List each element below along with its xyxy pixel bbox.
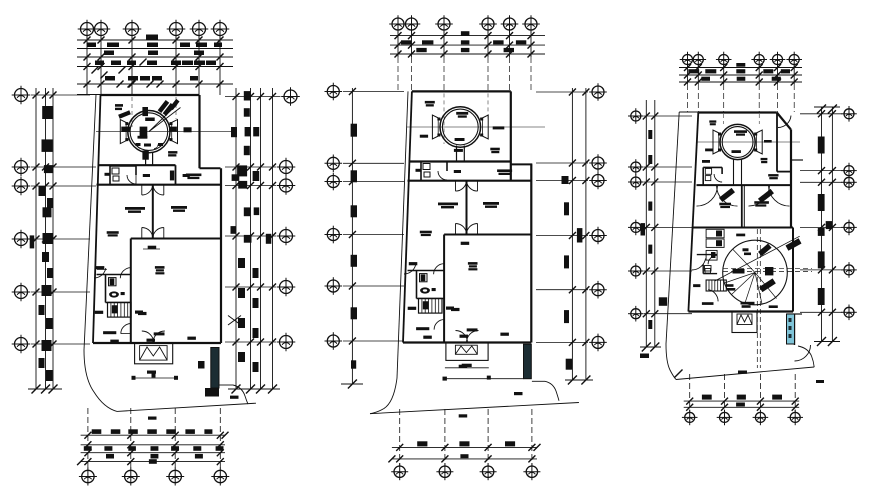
plan1 left axis line xyxy=(31,185,96,187)
plan2 area texts xyxy=(425,101,435,104)
plan2 top grid bubble 3 xyxy=(435,15,453,33)
plan2 wall y161 xyxy=(409,160,511,162)
plan3 driveway curb bottom-left xyxy=(666,344,676,380)
plan2 top exterior wall xyxy=(412,90,511,92)
plan2 left grid bubble 3 xyxy=(325,173,343,191)
plan2 left axis line xyxy=(343,162,404,164)
plan3 4.00 label right of stair xyxy=(726,284,733,287)
plan2 left door wing of circle xyxy=(432,115,440,139)
plan1 left axis line xyxy=(31,291,90,293)
plan2 lot boundary left slanted xyxy=(397,91,408,378)
plan1 bottom exterior wall xyxy=(93,342,221,344)
plan1 room label OFICINA No2 xyxy=(171,206,187,209)
plan1 4.00 dim labels with arrows xyxy=(148,246,157,249)
plan3 right axis line xyxy=(800,269,842,271)
plan3 right axis line xyxy=(800,113,842,115)
plan1 small text by sink xyxy=(121,292,125,295)
plan2 right axis line xyxy=(536,180,588,182)
plan3 grid centerlines xyxy=(723,114,725,124)
plan2 bottom dim droppers xyxy=(399,409,401,466)
plan2 right axis line xyxy=(536,162,588,164)
plan2 staircase xyxy=(419,298,443,313)
plan2 mid bathroom walls xyxy=(408,270,445,272)
plan1 wall y238 xyxy=(131,238,221,240)
plan3 right dim text blocks xyxy=(818,137,825,154)
plan1 partition x175 service area xyxy=(175,165,177,185)
plan1 label SECRETARIA xyxy=(103,331,116,334)
plan3 door arc top-right terrace xyxy=(778,116,791,128)
plan3 right grid bubble 2 xyxy=(841,163,857,179)
plan3 left dim text blocks xyxy=(648,130,652,139)
plan1 left grid bubble 4 xyxy=(12,230,31,249)
plan1 top grid bubble 3 xyxy=(123,20,142,39)
plan2 fence line below porch xyxy=(445,378,524,380)
plan3 AREA text in circle xyxy=(734,130,747,133)
plan3 interior wall x777 terrace strip xyxy=(776,113,778,172)
plan2 4.00 label left entry xyxy=(416,169,422,172)
plan3 wall y227 xyxy=(692,227,793,229)
plan2 double door on wall y234 xyxy=(456,224,467,235)
plan1 right door wing of circle xyxy=(170,120,178,144)
plan3 left axis line xyxy=(644,313,692,315)
plan1 top grid bubble 5 xyxy=(190,20,209,39)
plan3 rotunda dashed centerline pair vertical xyxy=(756,229,758,368)
plan2 4.00 label right of circle xyxy=(493,126,505,129)
plan3 vestibule below circle xyxy=(733,159,735,185)
plan2 right dimension lines xyxy=(571,88,573,380)
plan3 left axis line xyxy=(644,115,692,117)
plan1 bottom grid bubble 1 xyxy=(79,468,97,486)
plan3 small desks left rooms xyxy=(706,229,724,238)
plan3 gate swing arc bottom-right xyxy=(795,345,811,361)
plan2 right axis line xyxy=(536,91,588,93)
plan2 top grid bubble 2 xyxy=(403,15,421,33)
plan1 ramp dark hatched rectangle xyxy=(211,348,219,389)
plan3 right door wing of circle xyxy=(754,130,762,154)
plan3 bottom grid bubble 1 xyxy=(682,410,698,426)
plan3 4.00 label stair xyxy=(693,284,700,287)
plan3 4.00 label circle bottom xyxy=(732,150,741,153)
plan1 left door wing of circle xyxy=(120,120,128,144)
plan3 left grid bubble 3 xyxy=(628,174,644,190)
plan1 dark block left of partition xyxy=(170,171,174,181)
plan1 AREA DE SERVICIO text xyxy=(186,174,202,177)
plan1 driveway curb curve bottom-left xyxy=(84,350,117,411)
plan3 top grid bubble 2 xyxy=(691,52,707,68)
plan3 office labels xyxy=(719,203,731,206)
plan3 solid label left of center xyxy=(733,269,745,274)
plan3 left grid bubble 4 xyxy=(628,220,644,236)
plan1 left exterior wall (slanted) xyxy=(93,95,101,343)
plan2 bottom grid bubble 3 xyxy=(480,463,497,480)
plan3 staircase xyxy=(706,280,726,291)
plan1 grid centerline A xyxy=(131,97,133,127)
plan3 wall y314 right xyxy=(787,313,803,315)
plan3 right grid bubble 6 xyxy=(841,305,857,321)
plan2 right exterior wall lower xyxy=(530,164,532,342)
plan2 label below circle xyxy=(454,149,463,152)
plan2 left axis line xyxy=(343,340,404,342)
plan2 wall y164 step right xyxy=(511,163,533,165)
plan1 left axis line xyxy=(31,94,90,96)
plan3 right axis line xyxy=(800,226,842,228)
plan2 right grid bubble 6 xyxy=(589,334,607,352)
plan2 street edge line xyxy=(370,403,579,414)
plan2 stair label block xyxy=(446,307,454,310)
plan2 right dim block low xyxy=(566,359,573,370)
plan3 porch M steps xyxy=(737,315,752,325)
plan3 right grid bubble 3 xyxy=(841,175,857,191)
plan2 left axis line xyxy=(343,285,404,287)
plan2 left grid bubble 1 xyxy=(325,83,343,101)
plan1 bottom grid bubble 4 xyxy=(211,468,229,486)
plan2 vestibule below circle xyxy=(456,146,458,162)
plan1 grid centerline B xyxy=(175,97,177,119)
plan3 4.00 label left of circle xyxy=(705,149,713,152)
plan2 right grid bubble 3 xyxy=(589,172,607,190)
plan1 left grid bubble 3 xyxy=(12,177,31,196)
plan1 right axis line xyxy=(225,185,276,187)
plan1 stair arrow block xyxy=(112,306,117,313)
plan3 bottom grid bubble 4 xyxy=(787,410,803,426)
plan2 left dim block low xyxy=(351,360,356,368)
plan1 door arc secretaria xyxy=(121,324,131,334)
plan1 top exterior wall xyxy=(101,94,200,96)
plan2 driveway curb bottom-left xyxy=(370,378,397,414)
plan1 left grid bubble 6 xyxy=(12,335,31,354)
plan3 bottom dimension lines xyxy=(684,400,800,402)
plan1 dimension arrow line below porch xyxy=(133,377,176,379)
plan2 4.00 label in circle bottom xyxy=(455,138,465,141)
plan1 small marks bottom inside circle xyxy=(136,143,141,146)
plan3 right grid bubble 5 xyxy=(841,262,857,278)
plan3 top grid bubble 6 xyxy=(786,52,802,68)
plan2 right door wing of circle xyxy=(480,115,488,139)
plan1 room label SALA DE ESPERA xyxy=(155,266,165,269)
plan2 label RECEPCION xyxy=(467,328,478,331)
plan1 right grid bubble 6 xyxy=(277,333,296,352)
plan2 left axis line xyxy=(343,234,404,236)
plan3 left grid bubble 5 xyxy=(628,263,644,279)
plan3 top grid bubble 4 xyxy=(751,52,767,68)
plan3 4.00 label terrace strip xyxy=(764,140,772,143)
plan3 AREA DE SERVICIO text xyxy=(768,174,778,176)
plan3 wc fixture upper xyxy=(705,169,711,175)
plan3 wall y185 xyxy=(697,184,792,186)
plan1 left grid bubble 5 xyxy=(12,283,31,302)
plan1 right grid bubble 2 xyxy=(277,158,296,177)
plan1 AREA VERDE text top-left line1 xyxy=(115,104,123,107)
plan2 double door on corridor wall xyxy=(456,180,467,191)
plan3 door arc upper bath xyxy=(714,174,722,182)
plan2 AREA ESTAR text in circle xyxy=(456,112,468,115)
plan1 right grid bubble 4 xyxy=(277,227,296,246)
plan3 small labels in rotunda top xyxy=(743,248,749,251)
plan3 ramp light blue rectangle xyxy=(787,314,795,344)
plan3 left grid bubble 6 xyxy=(628,306,644,322)
plan1 mid bathroom walls xyxy=(97,274,131,276)
plan1 left dim ticks and end cross xyxy=(33,92,40,99)
plan2 room label SALA DE ESPERA xyxy=(468,262,478,265)
plan1 left axis line xyxy=(31,343,90,345)
plan1 left dim text blocks xyxy=(42,106,53,119)
plan3 sink fixture upper xyxy=(705,176,711,181)
plan1 4.00 label below porch xyxy=(147,371,156,374)
plan1 top grid stems xyxy=(86,36,88,95)
plan1 4.00 dim label corridor xyxy=(143,174,150,177)
plan3 left dimension lines xyxy=(645,100,647,347)
plan3 circle axis line xyxy=(696,141,800,143)
plan3 door arc mid bath xyxy=(708,255,717,264)
plan1 right exterior wall upper xyxy=(198,95,200,168)
plan1 X marker right side xyxy=(228,316,241,326)
plan1 room label OFICINA No1 xyxy=(125,207,145,210)
plan1 right grid bubble 5 xyxy=(277,278,296,297)
plan1 top dim text blocks xyxy=(146,35,158,40)
plan2 bathroom upper-left xyxy=(420,162,422,181)
plan1 black block right of porch xyxy=(198,361,205,369)
plan3 lot boundary left slanted xyxy=(666,112,679,344)
plan2 bottom grid bubble 2 xyxy=(436,463,453,480)
plan3 rotated desk bars offices xyxy=(719,188,735,202)
plan2 left dim text blocks xyxy=(351,124,357,137)
plan2 room label OFICINA No1 xyxy=(438,203,458,206)
plan2 left grid bubble 4 xyxy=(325,226,343,244)
plan1 rotated annotation bars top-right of circle xyxy=(158,100,170,113)
plan2 wall y234 xyxy=(444,234,531,236)
plan3 right axis line xyxy=(800,170,842,172)
plan3 upper bathroom walls xyxy=(702,167,704,185)
plan2 top grid stems xyxy=(397,30,399,57)
plan2 dimension arrow below porch xyxy=(445,367,489,369)
plan3 long diagonal chord with bar xyxy=(715,236,800,281)
plan1 street edge line xyxy=(117,403,256,411)
plan2 ramp dark rectangle xyxy=(524,344,532,379)
plan3 left grid bubble 1 xyxy=(628,108,644,124)
plan1 circle axis line xyxy=(96,131,234,133)
plan2 room label OFICINA No2 xyxy=(483,202,499,205)
plan1 rotated annotation bar top-left of circle xyxy=(118,110,131,118)
plan1 top grid bubble 2 xyxy=(92,20,111,39)
plan3 top-right slanted wall xyxy=(777,113,791,130)
plan1 door arc bathroom upper xyxy=(127,175,136,184)
plan1 AREA VERDE text lower-right line1 xyxy=(168,151,177,154)
plan1 bathroom upper-left walls xyxy=(109,166,111,184)
plan1 pillar block top of circle xyxy=(142,107,148,116)
plan3 bottom dim text blocks xyxy=(702,395,712,400)
plan3 top grid stems xyxy=(687,65,689,84)
plan3 spiral ramp outer circle xyxy=(723,240,788,305)
plan1 text block right of circle xyxy=(169,127,177,132)
plan2 bottom dimension lines xyxy=(392,446,537,448)
plan3 wall y171 strip bottom xyxy=(777,171,791,173)
plan3 mid bathroom xyxy=(697,254,717,256)
plan2 left dimension line xyxy=(351,88,353,384)
plan1 right axis line xyxy=(225,166,276,168)
plan1 circular hall double ring xyxy=(128,111,170,153)
plan1 corridor wall y184 xyxy=(97,184,222,186)
plan2 top grid bubble 4 xyxy=(479,15,497,33)
plan1 top dim ticks xyxy=(84,37,91,44)
plan2 top grid bubble 1 xyxy=(389,15,407,33)
plan1 right dim text blocks xyxy=(244,91,251,100)
plan2 top dim text blocks xyxy=(461,31,470,35)
plan1 bottom grid bubble 2 xyxy=(122,468,140,486)
plan2 door arc mid bath xyxy=(434,264,445,275)
plan1 right axis line xyxy=(225,96,281,98)
plan2 bottom exterior wall xyxy=(403,341,531,343)
plan3 tick street-lot crossing xyxy=(675,370,683,378)
plan3 left exterior wall slanted xyxy=(688,113,698,312)
plan2 fence right of ramp xyxy=(532,380,545,382)
plan2 right grid bubble 2 xyxy=(589,154,607,172)
plan1 left axis line xyxy=(31,238,90,240)
plan3 USO VEREDA text xyxy=(761,158,768,160)
plan3 4.00 labels street xyxy=(738,371,747,374)
plan1 top grid bubble 4 xyxy=(167,20,186,39)
plan1 left grid bubble 2 xyxy=(12,158,31,177)
plan3 right axis line xyxy=(800,311,842,313)
plan2 stair arrow block xyxy=(423,302,428,309)
plan2 corridor wall y180 xyxy=(408,180,532,182)
plan1 fence line at top-left of lot xyxy=(77,94,101,96)
plan2 right dim blocks xyxy=(562,176,569,184)
plan2 grid centerline A xyxy=(443,93,445,144)
plan3 right exterior wall upper xyxy=(790,129,792,227)
plan2 circular hall double ring xyxy=(440,107,481,148)
plan3 left axis line xyxy=(644,226,692,228)
plan1 bottom dimension lines xyxy=(81,434,225,436)
plan3 top grid bubble 5 xyxy=(770,52,786,68)
plan3 door arc below stair xyxy=(708,290,718,302)
plan3 left axis line xyxy=(644,181,692,183)
plan1 wc fixture mid (dark) xyxy=(110,278,115,285)
plan1 left dimension lines xyxy=(35,88,37,389)
plan2 left axis line xyxy=(343,181,404,183)
plan1 4.00 dim label left entry xyxy=(105,173,111,176)
plan1 double door on corridor wall xyxy=(142,184,153,195)
plan2 grid centerline B xyxy=(487,93,489,119)
plan2 porch M steps xyxy=(455,346,477,354)
plan3 rotated annotation bars in rotunda xyxy=(758,244,771,257)
plan3 fence line top-left xyxy=(679,111,698,113)
plan2 center partition wall xyxy=(466,180,468,234)
plan3 right fence wall by ramp xyxy=(794,314,796,345)
plan3 top exterior wall xyxy=(698,111,777,113)
plan3 large door arc right office xyxy=(749,185,770,206)
plan1 vestibule below circle xyxy=(145,153,147,166)
plan1 wall y168 right xyxy=(200,167,221,169)
plan2 door arc bathroom upper xyxy=(438,171,447,180)
plan1 bottom dim droppers xyxy=(87,408,89,470)
plan1 circle interior L-shaped counter xyxy=(140,127,148,139)
plan1 sink fixture xyxy=(113,176,119,181)
plan1 pointer lines from circle center xyxy=(149,105,181,132)
plan1 porch inner steps with M pattern xyxy=(140,346,168,361)
plan2 porch outline xyxy=(446,343,488,361)
plan1 right grid bubble 1 xyxy=(281,87,300,106)
plan3 bottom grid bubble 3 xyxy=(753,410,769,426)
plan3 bottom dim droppers xyxy=(689,374,691,413)
plan1 door arc mid bath xyxy=(120,268,131,279)
plan1 right axis line xyxy=(225,341,276,343)
plan3 circular hall double ring xyxy=(720,124,755,159)
plan3 top dim text blocks xyxy=(736,63,745,67)
plan3 4.00 label left xyxy=(702,160,710,163)
plan2 right grid bubble 5 xyxy=(589,281,607,299)
plan1 top grid bubble 6 xyxy=(211,20,230,39)
plan2 left grid bubble 5 xyxy=(325,277,343,295)
plan2 label SECRETARIA xyxy=(416,327,429,330)
plan3 right dimension lines xyxy=(821,107,823,342)
plan1 sink oval mid xyxy=(109,291,119,297)
plan1 right axis line xyxy=(225,235,276,237)
plan3 labels bottom rooms xyxy=(702,302,714,305)
plan2 right grid bubble 4 xyxy=(589,227,607,245)
plan2 right axis line xyxy=(536,235,588,237)
plan1 pillar block bottom of circle xyxy=(142,151,148,160)
plan3 curb bottom-right xyxy=(798,346,814,367)
plan3 solid block right of center xyxy=(765,267,773,275)
plan1 center partition wall xyxy=(152,184,154,239)
plan1 wall y165 xyxy=(98,164,176,166)
plan2 bottom grid bubble 4 xyxy=(523,463,540,480)
plan1 right axis line xyxy=(225,286,276,288)
plan3 rotunda dashed centerline pair horizontal xyxy=(723,267,812,269)
plan3 right wall of rotunda room xyxy=(792,228,794,312)
plan2 top grid bubble 6 xyxy=(522,15,540,33)
plan3 left axis line xyxy=(644,166,692,168)
plan3 top grid bubble 3 xyxy=(716,52,732,68)
plan2 top dimension lines xyxy=(390,35,545,37)
plan2 left axis line xyxy=(343,91,404,93)
plan2 circle axis line xyxy=(407,126,545,128)
plan1 partition wall x130 xyxy=(130,239,132,344)
plan1 curb curve bottom-right xyxy=(233,385,248,404)
plan1 right grid bubble 3 xyxy=(277,176,296,195)
plan3 left grid bubble 2 xyxy=(628,159,644,175)
plan1 door arc sala de juntas xyxy=(94,268,106,278)
plan1 bottom grid bubble 3 xyxy=(166,468,184,486)
plan3 wall stub y160 right xyxy=(791,159,803,161)
plan2 partition x444 xyxy=(443,235,445,343)
plan1 4.00 dim label corridor right xyxy=(183,174,190,177)
plan3 bottom grid bubble 2 xyxy=(717,410,733,426)
plan1 fence right of ramp xyxy=(219,384,233,386)
plan1 stair label block xyxy=(135,311,143,314)
plan2 left grid bubble 2 xyxy=(325,155,343,173)
plan2 top grid bubble 5 xyxy=(501,15,519,33)
plan3 left door wing of circle xyxy=(713,130,721,154)
plan1 wc fixture xyxy=(112,168,119,174)
plan3 porch outline xyxy=(732,312,757,333)
plan2 right axis line xyxy=(536,289,588,291)
plan1 left grid bubble 1 xyxy=(12,86,31,105)
plan2 entrance double door xyxy=(456,331,468,343)
plan1 double door on wall y238 xyxy=(142,228,153,239)
plan3 right grid bubble 4 xyxy=(841,220,857,236)
plan2 right exterior wall upper xyxy=(510,91,512,180)
plan2 room label SALA DE JUNTAS xyxy=(420,231,432,234)
plan3 large door arc left office xyxy=(697,185,718,206)
plan3 right grid bubble 1 xyxy=(841,106,857,122)
plan1 entrance double door xyxy=(142,331,154,343)
plan3 center corridor walls xyxy=(741,185,743,227)
plan1 text block far right of circle xyxy=(184,127,192,132)
plan1 top dimension lines xyxy=(77,39,233,41)
plan1 AREA ESTAR text in circle xyxy=(145,118,155,122)
plan1 black block below ramp xyxy=(205,388,219,397)
